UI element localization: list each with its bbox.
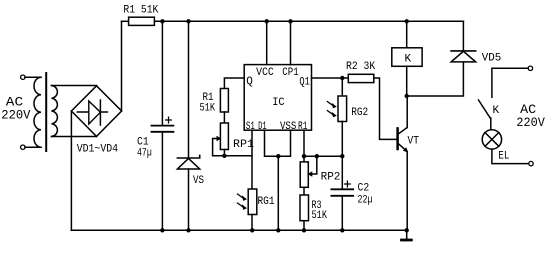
bridge rectifier VD1~VD4 <box>71 86 121 137</box>
junction VS bottom rail <box>186 228 190 232</box>
wire lamp to terminal <box>492 149 529 164</box>
junction collector node <box>405 94 409 98</box>
svg-text:VSS: VSS <box>280 121 297 133</box>
wire relay to collector node <box>406 66 408 96</box>
terminal AC output top right <box>528 66 532 70</box>
junction relay rail <box>405 19 409 23</box>
junction CP1 rail <box>288 19 292 23</box>
wire bridge negative output down <box>70 111 72 230</box>
junction tie midpoint <box>276 154 280 158</box>
wire node R1pin to RG2 branch <box>304 155 342 157</box>
svg-text:VT: VT <box>408 136 420 148</box>
svg-text:Q: Q <box>246 76 253 88</box>
wire S1 pin down <box>251 130 253 189</box>
junction R3 rail <box>302 228 306 232</box>
svg-text:EL: EL <box>498 150 509 162</box>
svg-text:R1: R1 <box>298 121 308 133</box>
zener diode VS <box>188 21 190 158</box>
terminal AC input top left <box>21 75 25 79</box>
junction tie rail <box>276 228 280 232</box>
svg-text:RG2: RG2 <box>351 107 368 119</box>
diode VD5 <box>451 50 476 52</box>
svg-text:VD1~VD4: VD1~VD4 <box>77 144 119 156</box>
svg-text:C2: C2 <box>358 183 370 195</box>
junction VS top rail <box>186 19 190 23</box>
svg-text:RG1: RG1 <box>258 196 275 208</box>
resistor R3 <box>300 195 309 221</box>
wire R3 to rail <box>303 221 305 231</box>
terminal AC input bottom left <box>21 145 25 149</box>
wire Q pin to bias chain <box>224 78 244 89</box>
wire VT collector up <box>406 96 408 128</box>
photoresistor RG2 <box>338 96 347 122</box>
capacitor C2 <box>341 156 343 189</box>
svg-text:51K: 51K <box>312 210 328 222</box>
terminal AC output bottom right <box>529 161 533 165</box>
transformer T core <box>45 73 47 151</box>
junction Q1 node <box>340 76 344 80</box>
wire Q1 pin <box>312 77 343 79</box>
svg-text:220V: 220V <box>516 115 545 130</box>
junction RP1 bottom <box>222 154 226 158</box>
switch K <box>479 100 491 118</box>
junction RG1 rail <box>250 228 254 232</box>
svg-text:VCC: VCC <box>256 67 274 79</box>
resistor R2 <box>342 77 348 79</box>
relay coil K <box>392 48 422 67</box>
ground <box>402 239 412 242</box>
svg-text:D1: D1 <box>258 121 267 133</box>
wire CP1 pin to rail <box>290 21 292 64</box>
wire secondary bottom to bridge <box>52 136 97 138</box>
IC U1 box <box>244 65 311 131</box>
svg-text:22µ: 22µ <box>358 194 373 206</box>
wire rail to ground <box>406 230 408 239</box>
transformer T primary winding <box>34 77 41 147</box>
wire VT emitter to ground rail <box>406 152 408 231</box>
junction node left <box>302 154 306 158</box>
transformer T secondary winding <box>52 86 58 137</box>
wire top positive rail <box>154 20 463 22</box>
svg-text:220V: 220V <box>1 108 30 123</box>
svg-text:47µ: 47µ <box>137 148 152 160</box>
svg-text:IC: IC <box>272 97 285 109</box>
wire RG1 to rail <box>251 215 253 231</box>
svg-text:CP1: CP1 <box>282 67 299 79</box>
junction VCC rail <box>265 19 269 23</box>
svg-text:VD5: VD5 <box>482 53 502 65</box>
wire D1 VSS tie <box>265 130 291 156</box>
wire switch to lamp <box>490 118 492 130</box>
wire secondary top to bridge <box>52 85 97 87</box>
junction RP2 wiper <box>315 154 319 158</box>
junction C1 bottom rail <box>160 228 164 232</box>
wire Q1 node to RG2 <box>341 78 343 96</box>
svg-text:C1: C1 <box>137 137 149 149</box>
junction node right <box>340 154 344 158</box>
wire R1 to RP1 <box>223 112 225 123</box>
potentiometer RP1 <box>220 123 228 150</box>
wire top terminal to primary <box>25 76 41 78</box>
junction C2 rail <box>340 228 344 232</box>
capacitor C1 <box>161 21 163 125</box>
svg-text:K: K <box>493 105 500 117</box>
resistor R1 <box>122 20 129 22</box>
wire R1 left to bridge positive output <box>121 21 123 111</box>
svg-text:Q1: Q1 <box>299 76 310 88</box>
wire rail to relay <box>406 21 408 48</box>
svg-text:VS: VS <box>193 175 204 187</box>
potentiometer RP2 <box>300 162 308 187</box>
wire R2 to VT base <box>374 78 398 139</box>
wire RP1 bottom to S1 line <box>213 155 252 157</box>
wire terminal to switch <box>492 68 528 97</box>
svg-text:R1 51K: R1 51K <box>123 4 158 16</box>
wire R1 pin down <box>303 130 305 162</box>
svg-text:RP2: RP2 <box>321 172 341 184</box>
wire bottom ground rail <box>71 229 406 231</box>
resistor R1 51K vertical <box>220 89 228 113</box>
wire RP2 to R3 <box>303 187 305 195</box>
lamp EL <box>482 130 501 149</box>
svg-text:R2 3K: R2 3K <box>346 61 376 73</box>
svg-text:S1: S1 <box>246 121 255 133</box>
svg-text:K: K <box>405 53 412 65</box>
wire VD5 branch <box>407 62 464 96</box>
transistor VT <box>396 128 399 149</box>
junction C1 top rail <box>160 19 164 23</box>
photoresistor RG1 <box>248 189 257 215</box>
wire bottom terminal to primary <box>25 146 41 148</box>
wire RG2 bottom <box>341 122 343 157</box>
svg-text:51K: 51K <box>200 102 216 114</box>
wire tie to ground rail <box>277 156 279 230</box>
junction ground rail <box>405 228 409 232</box>
svg-text:RP1: RP1 <box>233 139 254 151</box>
wire VCC pin to rail <box>266 21 268 64</box>
